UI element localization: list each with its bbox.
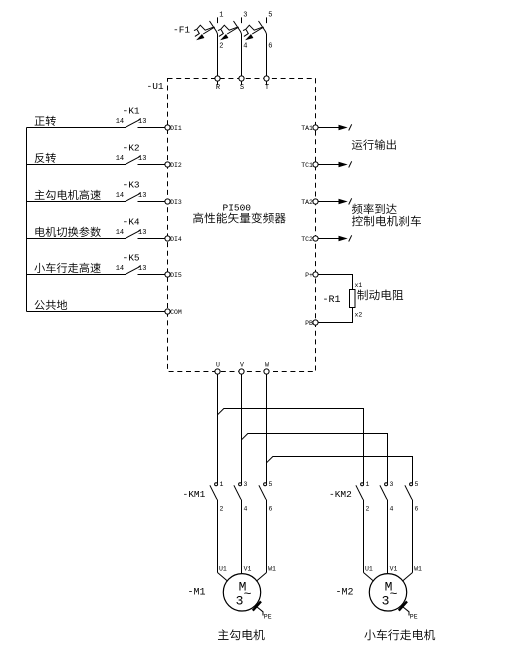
wire pole 4 to S terminal	[241, 34, 243, 76]
terminal DI2	[165, 162, 170, 167]
wire V1 lead	[241, 573, 243, 574]
wire P+ to resistor R1	[318, 275, 352, 290]
svg-text:COM: COM	[170, 309, 182, 316]
svg-text:DI3: DI3	[170, 199, 182, 206]
wire output arrow	[318, 201, 338, 203]
terminal PB	[313, 320, 318, 325]
terminal TA1	[313, 125, 318, 130]
wire V to KM1 pole	[241, 374, 243, 480]
ground PE lead	[401, 606, 409, 616]
svg-text:-K4: -K4	[123, 216, 140, 227]
terminal T	[264, 76, 269, 81]
svg-text:-F1: -F1	[173, 25, 190, 36]
svg-text:P+: P+	[305, 272, 313, 279]
label 制动电阻	[357, 290, 403, 301]
label 频率到达	[352, 204, 397, 215]
node 主勾电机高速 / relay contact -K3	[27, 179, 182, 206]
wire pole 6 to T terminal	[266, 34, 268, 76]
svg-text:-U1: -U1	[147, 81, 164, 92]
wire W branch to KM2 pole	[267, 457, 413, 481]
wire U1 lead	[364, 573, 374, 582]
svg-text:-KM1: -KM1	[183, 489, 206, 500]
circuit breaker -F1	[173, 12, 272, 76]
wire pole 4 down	[241, 500, 243, 573]
contactor pole 5/6	[405, 481, 419, 573]
svg-text:V: V	[240, 362, 244, 369]
wire contact to DI4	[138, 238, 165, 240]
svg-text:-K1: -K1	[123, 105, 140, 116]
wire bus to contact	[27, 238, 127, 240]
svg-text:13: 13	[138, 192, 146, 200]
svg-text:-KM2: -KM2	[329, 489, 352, 500]
svg-text:4: 4	[390, 506, 394, 513]
svg-text:1: 1	[366, 481, 370, 488]
wire bus to COM	[27, 311, 165, 313]
svg-text:14: 14	[116, 155, 124, 163]
svg-text:DI5: DI5	[170, 272, 182, 279]
svg-text:PE: PE	[410, 614, 418, 621]
wire contact to DI5	[138, 274, 165, 276]
svg-text:5: 5	[415, 481, 419, 488]
svg-text:3: 3	[244, 481, 248, 488]
svg-text:~: ~	[390, 587, 398, 602]
motor -M1 (M 3~)	[188, 566, 277, 621]
svg-text:3: 3	[243, 12, 247, 20]
svg-text:-R1: -R1	[323, 295, 341, 306]
terminal R	[215, 76, 220, 81]
wire U1 lead	[218, 573, 228, 582]
svg-text:3: 3	[236, 594, 244, 609]
terminal V	[239, 369, 244, 374]
contactor pole 1/2	[210, 481, 224, 573]
ground PE lead	[255, 606, 263, 616]
svg-text:-K3: -K3	[123, 179, 140, 190]
terminal DI1	[165, 125, 170, 130]
svg-text:DI1: DI1	[170, 125, 182, 132]
wire pole 4 down	[387, 500, 389, 573]
wire pole 2 to R terminal	[217, 34, 219, 76]
contactor pole 1/2	[356, 481, 370, 573]
svg-text:U: U	[216, 362, 220, 369]
svg-text:-K2: -K2	[123, 142, 140, 153]
svg-text:x2: x2	[355, 312, 363, 319]
motor -M2 (M 3~)	[336, 566, 423, 621]
svg-text:1: 1	[219, 12, 223, 20]
svg-text:3: 3	[390, 481, 394, 488]
svg-text:T: T	[265, 84, 269, 92]
inverter -U1 dashed enclosure	[168, 79, 316, 372]
contactor pole 3/4	[380, 481, 394, 573]
terminal TA2	[313, 199, 318, 204]
svg-text:13: 13	[138, 118, 146, 126]
label 小车行走电机	[364, 629, 435, 640]
label 控制电机刹车	[352, 216, 421, 227]
wire bus to contact	[27, 164, 127, 166]
svg-text:-M2: -M2	[336, 588, 354, 599]
svg-text:14: 14	[116, 118, 124, 126]
svg-text:TC1: TC1	[301, 162, 313, 169]
contact -K4 blade	[126, 230, 140, 238]
contact -K2 blade	[126, 156, 140, 164]
svg-text:W: W	[265, 362, 269, 369]
terminal COM	[165, 309, 170, 314]
svg-text:6: 6	[268, 43, 272, 51]
svg-text:13: 13	[138, 155, 146, 163]
wire contact to DI3	[138, 201, 165, 203]
node 公共地 (common)	[27, 300, 182, 316]
svg-text:PE: PE	[264, 614, 272, 621]
wire bus to contact	[27, 127, 127, 129]
svg-text:2: 2	[366, 506, 370, 513]
wire contact to DI2	[138, 164, 165, 166]
svg-text:13: 13	[138, 229, 146, 237]
svg-text:DI4: DI4	[170, 236, 182, 243]
svg-text:5: 5	[269, 481, 273, 488]
contact -K1 blade	[126, 119, 140, 127]
wire output arrow	[318, 127, 338, 129]
terminal S	[239, 76, 244, 81]
svg-text:-M1: -M1	[188, 588, 206, 599]
svg-text:PB: PB	[305, 320, 313, 327]
node 电机切换参数 / relay contact -K4	[27, 216, 182, 243]
svg-text:2: 2	[219, 43, 223, 51]
svg-text:14: 14	[116, 265, 124, 273]
terminal DI5	[165, 272, 170, 277]
svg-text:PI500: PI500	[223, 203, 252, 214]
wire pole 6 down	[266, 500, 268, 573]
svg-text:14: 14	[116, 229, 124, 237]
svg-text:V1: V1	[244, 566, 252, 573]
wire contact to DI1	[138, 127, 165, 129]
svg-text:14: 14	[116, 192, 124, 200]
svg-text:13: 13	[138, 265, 146, 273]
node 小车行走高速 / relay contact -K5	[27, 252, 182, 279]
wire V branch to KM2 pole	[242, 434, 388, 481]
contactor pole 5/6	[259, 481, 273, 573]
node 反转 / relay contact -K2	[27, 142, 182, 169]
terminal U	[215, 369, 220, 374]
wire pole 2 down	[363, 500, 365, 573]
svg-text:-K5: -K5	[123, 252, 140, 263]
wire W1 lead	[256, 573, 266, 582]
svg-text:3: 3	[382, 594, 390, 609]
svg-text:TC2: TC2	[301, 236, 313, 243]
label 运行输出	[352, 139, 396, 150]
svg-text:TA1: TA1	[301, 125, 313, 132]
wire pole 6 down	[412, 500, 414, 573]
terminal P+	[313, 272, 318, 277]
label 主勾电机	[218, 629, 265, 640]
svg-text:U1: U1	[365, 566, 373, 573]
svg-text:U1: U1	[219, 566, 227, 573]
wire output arrow	[318, 238, 338, 240]
contactor pole 3/4	[234, 481, 248, 573]
breaker pole 1/2	[217, 17, 219, 23]
wire W to KM1 pole	[266, 374, 268, 480]
svg-text:2: 2	[220, 506, 224, 513]
breaker pole 5/6	[266, 17, 268, 23]
wire U branch to KM2 pole	[218, 409, 364, 481]
wire V1 lead	[387, 573, 389, 574]
svg-text:DI2: DI2	[170, 162, 182, 169]
wire pole 2 down	[217, 500, 219, 573]
left common bus wire	[26, 128, 28, 312]
svg-text:x1: x1	[355, 282, 363, 289]
breaker pole 3/4	[241, 17, 243, 23]
svg-text:6: 6	[269, 506, 273, 513]
svg-text:1: 1	[220, 481, 224, 488]
terminal TC2	[313, 236, 318, 241]
svg-text:6: 6	[415, 506, 419, 513]
svg-text:4: 4	[243, 43, 247, 51]
wire resistor to PB	[318, 308, 352, 323]
resistor -R1 (braking)	[323, 282, 363, 319]
svg-text:V1: V1	[390, 566, 398, 573]
node 正转 / relay contact -K1	[27, 105, 182, 132]
wire bus to contact	[27, 201, 127, 203]
terminal DI4	[165, 236, 170, 241]
svg-text:R: R	[216, 84, 221, 92]
contact -K3 blade	[126, 193, 140, 201]
contact -K5 blade	[126, 266, 140, 274]
terminal W	[264, 369, 269, 374]
terminal DI3	[165, 199, 170, 204]
svg-text:4: 4	[244, 506, 248, 513]
label 高性能矢量变频器	[193, 212, 286, 223]
terminal TC1	[313, 162, 318, 167]
svg-text:S: S	[240, 84, 244, 92]
wire W1 lead	[402, 573, 412, 582]
svg-text:W1: W1	[414, 566, 422, 573]
svg-text:5: 5	[268, 12, 272, 20]
svg-text:~: ~	[244, 587, 252, 602]
svg-text:TA2: TA2	[301, 199, 313, 206]
wire bus to contact	[27, 274, 127, 276]
wire output arrow	[318, 164, 338, 166]
svg-text:W1: W1	[268, 566, 276, 573]
wire U to KM1 pole	[217, 374, 219, 480]
